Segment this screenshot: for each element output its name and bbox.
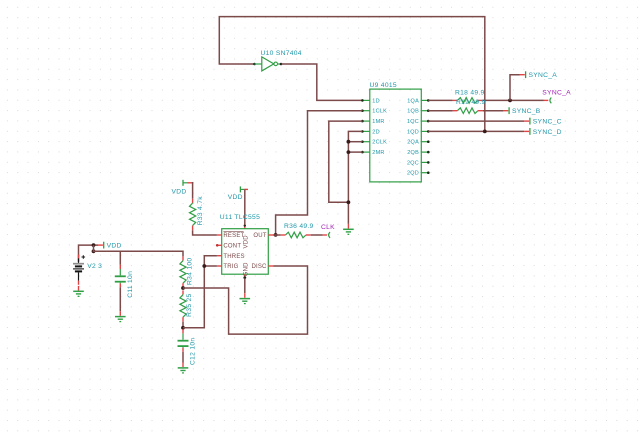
wire feedback loop from 1QD net up and over to inverter U10 input: [219, 17, 485, 132]
wire U9 1QC to SYNC_C port: [428, 120, 524, 122]
wire U9 1QB to R19: [428, 110, 452, 112]
resistor R35: [180, 290, 186, 321]
svg-text:VDD: VDD: [172, 189, 187, 196]
wire battery plus to VDD node: [79, 245, 99, 262]
svg-text:R36 49.9: R36 49.9: [284, 223, 314, 230]
ground below battery V2: [73, 286, 84, 296]
wire VDD node to R34 top: [94, 245, 184, 256]
wire U9 1CLK to 555 OUT node: [276, 111, 363, 235]
svg-text:U10 SN7404: U10 SN7404: [261, 50, 302, 57]
U11 pin names: [223, 232, 267, 277]
svg-text:SYNC_A: SYNC_A: [542, 89, 571, 96]
port SYNC_B: [503, 107, 540, 115]
svg-text:R19 49.9: R19 49.9: [456, 99, 486, 106]
svg-text:R35 25: R35 25: [186, 293, 193, 316]
resistor R19: [453, 108, 483, 114]
wire R19 to SYNC_B port: [483, 110, 504, 112]
ground below C12: [178, 363, 189, 373]
U11 left pins RESET CONT THRES TRIG: [216, 235, 222, 266]
svg-text:2QB: 2QB: [407, 150, 419, 156]
resistor R33: [190, 199, 196, 230]
junction 2CLK on ground net: [347, 140, 351, 144]
junction 555 OUT node: [274, 233, 278, 237]
junction R35-C12-TRIG net: [181, 326, 185, 330]
svg-text:2CLK: 2CLK: [372, 140, 387, 146]
svg-text:TRIG: TRIG: [223, 264, 238, 270]
wire U9 1QD to SYNC_D port: [428, 130, 524, 132]
wire branch down to C11: [119, 251, 121, 264]
wire U9 2MR stub to ground net: [348, 151, 362, 153]
svg-text:R33 4.7k: R33 4.7k: [197, 196, 204, 226]
svg-text:VDD: VDD: [228, 194, 243, 201]
wire U9 1MR to ground net: [329, 121, 363, 202]
wire DISC to R34/R35 junction: [183, 266, 308, 334]
junction VDD node lower: [92, 249, 96, 253]
junction 1MR joins ground net: [347, 200, 351, 204]
power VDD supply symbol above R33: [183, 180, 192, 186]
wire C11 bottom to ground: [119, 287, 121, 311]
junction R34-R35-DISC net: [181, 286, 185, 290]
ground below U11: [240, 293, 251, 303]
svg-text:VDD: VDD: [107, 243, 122, 250]
wire R18 to SYNC_A label: [483, 99, 544, 101]
ground below C11: [115, 311, 126, 321]
svg-text:2MR: 2MR: [372, 150, 384, 156]
wire U9 1QA to R18: [428, 99, 452, 101]
op-amp U10 inverter SN7404: [253, 57, 282, 71]
U9 right pin names: [407, 98, 419, 176]
wire THRES to R35/C12 junction: [183, 256, 217, 328]
resistor R36: [281, 232, 311, 238]
wire TRIG stub: [204, 265, 217, 267]
svg-text:1CLK: 1CLK: [372, 109, 387, 115]
svg-text:U9 4015: U9 4015: [370, 82, 397, 89]
net label CLK (purple): [321, 224, 335, 238]
IC U9 4015 body: [370, 89, 422, 182]
junction 1QD feedback loop: [483, 130, 487, 134]
svg-text:1QB: 1QB: [407, 109, 419, 115]
wire C12 bottom to ground: [182, 352, 184, 363]
capacitor C11: [115, 265, 126, 288]
wire VDD to R33 top: [191, 183, 194, 199]
pin U11 VDD (top): [244, 224, 246, 229]
port SYNC_C: [524, 118, 562, 126]
port VDD near battery: [98, 242, 122, 250]
svg-text:2QC: 2QC: [407, 160, 419, 166]
svg-text:GND: GND: [244, 262, 250, 276]
svg-text:SYNC_A: SYNC_A: [529, 72, 558, 79]
U9 left pin names: [372, 98, 387, 156]
wire U10 output to U9 pin 1D: [282, 64, 363, 100]
battery V2: [73, 255, 85, 285]
ground for U9 reset/data pins: [343, 224, 354, 234]
wire U11 GND pin down: [244, 278, 246, 293]
IC U11 TLC555 body: [222, 229, 269, 275]
svg-text:CONT: CONT: [223, 244, 241, 250]
wire U9 2D down to ground symbol: [348, 131, 362, 224]
wire R35 bottom to junction: [182, 322, 184, 328]
svg-text:CLK: CLK: [321, 224, 335, 231]
junction TRIG on THRES net: [202, 264, 206, 268]
junction VDD node upper: [92, 243, 96, 247]
svg-text:1MR: 1MR: [372, 119, 384, 125]
svg-text:1QD: 1QD: [407, 129, 419, 135]
resistor R34: [180, 256, 186, 287]
port SYNC_A: [520, 71, 557, 79]
wire OUT to R36: [273, 234, 281, 236]
svg-text:1QA: 1QA: [407, 98, 419, 104]
wire R33 bottom to 555 RESET: [193, 230, 217, 235]
svg-text:THRES: THRES: [223, 254, 244, 260]
net label SYNC_A (purple): [542, 89, 571, 103]
svg-text:1D: 1D: [372, 98, 380, 104]
wire VDD down to U11 VDD pin: [244, 189, 246, 224]
power VDD supply symbol above U11: [240, 186, 248, 192]
U11 right pins OUT DISC: [268, 235, 273, 266]
U9 right pins 1QA 1QB 1QC 1QD 2QA 2QB 2QC 2QD: [421, 99, 429, 174]
U9 left pins 1D 1CLK 1MR 2D 2CLK 2MR: [361, 99, 370, 153]
resistor R18: [453, 98, 483, 104]
svg-text:RESET: RESET: [223, 233, 244, 239]
svg-text:2D: 2D: [372, 129, 380, 135]
wire branch up to SYNC_A port: [510, 75, 520, 101]
pin dot U11 VDD: [244, 224, 246, 226]
junction SYNC_A branch: [508, 99, 512, 103]
wire R36 to CLK label: [311, 234, 323, 236]
junction 2MR on ground net: [347, 150, 351, 154]
svg-text:R18 49.9: R18 49.9: [455, 90, 485, 97]
svg-text:2QA: 2QA: [407, 140, 419, 146]
svg-text:SYNC_D: SYNC_D: [533, 129, 562, 136]
svg-text:R34 100: R34 100: [187, 258, 194, 285]
svg-text:C12 10n: C12 10n: [190, 338, 197, 365]
wire U9 2CLK stub to ground net: [348, 141, 362, 143]
svg-text:OUT: OUT: [253, 233, 266, 239]
svg-text:1QC: 1QC: [407, 119, 419, 125]
svg-text:SYNC_C: SYNC_C: [533, 119, 562, 126]
U11 bottom pin GND: [243, 274, 246, 279]
capacitor C12: [178, 329, 189, 352]
svg-text:DISC: DISC: [251, 264, 267, 270]
svg-text:VDD: VDD: [244, 235, 250, 249]
svg-text:C11 10n: C11 10n: [127, 271, 134, 298]
svg-text:2QD: 2QD: [407, 171, 419, 177]
port SYNC_D: [524, 128, 562, 136]
svg-text:V2 3: V2 3: [87, 263, 102, 270]
svg-text:SYNC_B: SYNC_B: [512, 108, 541, 115]
svg-text:U11 TLC555: U11 TLC555: [220, 214, 260, 221]
